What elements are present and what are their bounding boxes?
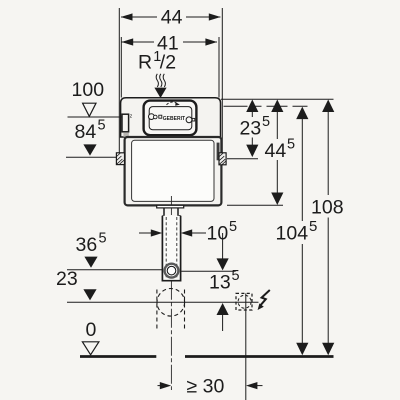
dashed elbow pipe sides [156,290,158,332]
pipe inner dashed walls [165,217,167,279]
level line 100 [68,116,123,118]
svg-text:23: 23 [56,268,78,290]
supply arrow to tank top [154,88,166,98]
svg-text:5: 5 [229,219,237,235]
svg-text:13: 13 [209,272,231,294]
dimension 41 line [121,41,154,43]
svg-text:44: 44 [161,7,183,29]
access box inner frame [149,107,192,130]
svg-text:5: 5 [99,231,107,247]
extension line right x=222.3 [221,8,223,159]
svg-text:≥ 30: ≥ 30 [187,376,225,398]
dimension 104.5 [276,107,318,356]
filled triangle 23 [83,289,96,300]
svg-text:108: 108 [311,197,344,219]
svg-text:5: 5 [232,268,240,284]
dimension 108 [311,100,344,356]
front access panel [132,140,214,201]
extension line left for 41 [120,37,122,98]
filled triangle 36.5 [84,257,97,268]
top reference line 108 level [221,98,334,100]
open triangle 100 [83,103,96,116]
svg-text:0: 0 [86,319,97,341]
dimension 44 line [121,16,157,18]
23.5 bottom line [227,158,258,160]
svg-text:5: 5 [309,218,317,235]
svg-text:44: 44 [265,140,287,162]
floor line main segment [185,355,334,358]
svg-text:104: 104 [276,223,309,245]
svg-text:23: 23 [240,118,262,140]
supply connection box left [122,114,129,132]
dimension 44.5 [227,100,295,206]
svg-text:5: 5 [287,137,295,153]
access box outer [144,101,197,136]
filled triangle 84.5 [83,144,96,155]
dimension 44 left arrow [121,13,133,20]
left wall bracket [116,153,124,165]
dashed reference line 104.5 level [224,105,308,107]
lightning bolt [260,290,270,306]
dimension >=30 [158,376,263,398]
dimension 23.5 [227,100,270,159]
dashed junction square [236,293,252,310]
svg-text:R: R [138,52,152,74]
44.5 bottom line (tank bottom extension) [227,204,283,206]
svg-text:36: 36 [76,234,98,256]
right dark bar [217,143,220,161]
level line 84.5 [66,156,117,158]
floor line left segment [80,355,156,358]
water supply squiggle [156,74,165,87]
GEBERIT logo text [159,115,162,118]
access box left keyhole [149,114,155,120]
open triangle 0 [82,342,99,355]
collar [162,208,180,216]
svg-text:5: 5 [98,118,106,134]
dashed elbow circle [157,289,185,317]
dimension 10.5 [139,219,237,245]
36.5 level right segment [181,270,235,272]
dashed circle in square [238,295,251,308]
gray step below supply box [123,132,128,136]
wall reference vertical line [245,293,247,400]
dimension 41 right arrow [205,38,217,45]
extension line left x=119.3 [118,8,120,158]
dimension 44 right arrow [209,13,221,20]
center line below pipe [170,281,172,390]
svg-text:/2: /2 [160,52,176,74]
svg-text:84: 84 [75,121,97,143]
svg-text:5: 5 [262,114,270,130]
level line 23 [67,301,259,303]
cistern upper body [121,98,221,137]
svg-text:100: 100 [72,79,105,101]
access box dashed arc with arrow [167,102,179,105]
flush valve center line [170,196,172,281]
level line 36.5 [67,269,162,271]
flange bar [157,205,184,208]
extension line right for 41 [218,37,220,98]
right wall bracket [219,153,226,165]
flush pipe [162,216,180,281]
svg-text:GEBERIT: GEBERIT [163,116,185,122]
outlet ring [165,264,179,278]
dimension 41 left arrow [121,38,133,45]
cistern lower protection box [125,137,222,205]
access box right keyhole [186,117,192,123]
svg-text:10: 10 [207,223,229,245]
dimension 13.5 [181,233,239,331]
